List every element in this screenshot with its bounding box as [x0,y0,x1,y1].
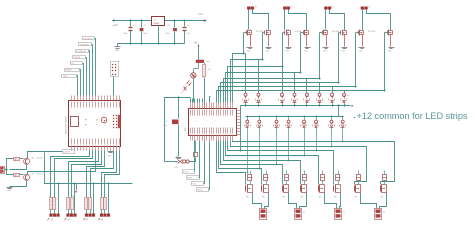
connector SV1 vertical flag [111,62,119,77]
svg-text:X2: X2 [291,7,293,9]
capacitor C3 [174,21,176,28]
svg-text:X1: X1 [255,7,257,9]
svg-text:GND: GND [63,76,68,78]
wire IC2 output 6 staircase to channel column [221,83,339,103]
net label flag GND2 [197,188,209,192]
transistor Q11 power MOSFET top row [303,31,305,35]
net label flag D13/SCK [83,37,95,40]
transistor T14 row D [316,117,318,121]
svg-text:F1: F1 [176,156,178,158]
wire net GND2 to IC2 [209,141,210,190]
transistor T16 row D [342,117,344,121]
wire SV1 to IC1 pin [113,77,115,96]
LED power indicator [198,63,200,69]
transistor T4 row C [294,73,296,94]
wire MOSFET pair to X6 [289,193,297,209]
wire IC2 output 1 staircase to channel column [233,54,246,103]
IC2 pin name texts bottom row [190,128,192,134]
IC2 right pin stubs [237,110,241,112]
capacitor C7 [172,120,179,125]
wire IC2 to MOSFET row F channel 1 [217,141,246,185]
ground symbol near IC2 [176,157,182,159]
wire X1 pad2 to MOSFET [253,10,269,30]
wire Q10 source to ground [288,35,290,47]
svg-text:RESET: RESET [65,70,72,72]
wire IC2 output 8 staircase to channel column [217,91,385,103]
wire Q7 collector to IC1 pin [28,151,96,175]
transistor Q20 power MOSFET row F [318,186,320,192]
ground symbol Q10 [286,47,292,49]
connector X4 12V strip top [361,7,364,10]
wire X1 pad1 to MOSFET [248,10,250,30]
IC1 logo circle [101,117,107,123]
wire net RESET to IC1 pin [80,70,81,96]
transistor T10 row D [259,117,261,121]
wire Q6 collector to flag [28,152,63,159]
svg-text:IC3: IC3 [153,19,156,21]
wire C7 branch [178,98,180,119]
wire IC2 output 7 staircase to channel column [219,87,356,103]
svg-text:X8: X8 [383,212,385,214]
resistor R2 LED output [50,198,53,210]
transistor Q21 power MOSFET row F [333,186,335,192]
wire MOSFET pair to X5 [253,193,262,209]
svg-text:ARDUINO NANO: ARDUINO NANO [65,117,68,134]
transistor T13 row D [304,117,306,121]
wire +12V rail row C [241,105,351,107]
capacitor C5 [196,60,204,63]
svg-text:X7: X7 [343,212,345,214]
transistor T7 row C [332,87,334,94]
wire +12V to connector JP4 pin3 [108,184,110,214]
ground symbol Q15 [389,47,395,49]
IC1 pin name texts bottom row [71,139,73,145]
wire row D top bus [246,116,344,118]
transistor T12 row D [288,117,290,121]
crystal marks [184,87,187,91]
transistor Q14 power MOSFET top row [358,31,360,35]
wire +12V to connector JP3 pin3 [93,184,95,214]
svg-text:D13/SCK: D13/SCK [84,38,93,40]
svg-text:100n: 100n [143,33,147,35]
LED arrows [187,81,190,84]
net label flag SCLK [183,170,195,174]
junction dots on +5V rail [174,20,176,22]
wire IC2 to MOSFET row F channel 7 [231,141,367,185]
svg-text:+12V: +12V [112,23,118,27]
svg-text:BC547: BC547 [37,158,44,160]
capacitor C2 [141,21,143,28]
wire gate Q15 [384,33,386,91]
transistor T9 row D [247,117,249,121]
capacitor C1 electrolytic [130,21,132,27]
IC1 bottom pin stubs [71,146,73,151]
wires IC2 top-left pins [192,99,194,103]
wire IC2 output 4 staircase to channel column [226,73,301,103]
diode D7 row F [357,175,361,181]
wire +12V to connector JP2 pin3 [74,184,76,214]
transistor T3 row C [282,67,284,94]
wire IC2 to MOSFET row F channel 2 [219,141,262,185]
wire net SCLK to IC2 [194,141,196,172]
svg-text:GND: GND [115,50,120,52]
svg-text:X3: X3 [332,7,334,9]
transistor T1 row C [245,54,247,94]
svg-text:IRF: IRF [301,197,304,199]
IC2 top pin stubs [190,103,192,109]
svg-text:X5: X5 [268,212,270,214]
resistor R1 pullup [204,63,206,65]
wire ground bus of power section [118,43,185,45]
svg-text:+5V: +5V [198,12,203,16]
wire IC2 output 2 staircase to channel column [231,60,263,103]
wire gate Q14 [355,33,357,87]
wire IC2 to MOSFET row F channel 6 [228,141,334,185]
transistor Q8 power MOSFET top row [246,31,248,35]
wire MOSFET pair to X7 [325,193,337,209]
svg-text:100n: 100n [165,33,169,35]
resistor R5 LED output [71,198,74,210]
diode D8 row F [383,175,387,181]
IC1 pin name texts top row [71,102,73,108]
wire X4 pad2 to MOSFET [367,10,391,30]
wire gate Q12 [319,33,321,79]
svg-text:100n: 100n [163,125,167,127]
wire +5V to R1 C5 [198,49,200,60]
transistor T2 row C [258,60,260,94]
wire R20 to Q6 [20,158,24,160]
transistor Q12 power MOSFET top row [322,31,324,35]
svg-text:D11/MOSI: D11/MOSI [76,51,86,53]
net label flag D9 [71,62,83,65]
wire Q11 source to ground [306,35,308,47]
wire net MOSI to IC2 [199,141,200,178]
diode D2 row F [264,175,268,181]
transistor T8 row C [344,91,346,94]
wire X2 pad2 to MOSFET [289,10,307,30]
wire X2 to transistor bases [5,169,7,171]
IC1 top pin stubs [71,96,73,101]
svg-text:X6: X6 [303,212,305,214]
wire LED cathode to IC2 [193,79,195,103]
svg-text:IRF: IRF [334,197,337,199]
wire T9 down to fan [247,128,249,173]
wire net GND to IC1 pin [77,76,78,96]
teal title text [353,117,355,119]
wire T15 down to fan [331,128,333,147]
wire net SCL to IC2 [204,141,205,184]
svg-text:D12/MISO: D12/MISO [80,45,90,47]
svg-text:D2-INT: D2-INT [63,152,70,154]
wire gate Q9 [262,33,264,60]
wire T13 down to fan [304,128,306,156]
wire Q12 source to ground [326,35,328,47]
IC2 pin name texts top row [190,110,192,116]
ground symbol IC1 [110,151,112,152]
net label flag D10/SS [73,56,86,59]
net label flag GND [62,75,77,78]
diode D6 row F [336,175,340,181]
wire net D13/SCK to IC1 pin [95,39,96,96]
wire supply loop left of IC2 [165,98,191,162]
transistor T6 row C [319,83,321,94]
net label flag MOSI [187,176,200,180]
IC1 pad grid [113,115,114,116]
resistor R7 LED output [89,198,92,210]
wire IC2 to MOSFET row F channel 3 [221,141,283,185]
diode D3 row F [285,175,289,181]
diode D4 row F [303,175,307,181]
wire fuse feed [165,161,178,163]
resistor R6 LED output [85,198,88,210]
wire gate Q13 [338,33,340,83]
wire gate Q11 [300,33,302,73]
diode D1 row F [248,175,252,181]
connector X1 12V strip top [247,7,250,10]
svg-text:GND: GND [107,156,112,158]
IC2 bottom pin stubs [190,135,192,141]
net label flag INT below IC1 [63,150,75,154]
wire T12 down to fan [288,128,290,161]
resistor R4 LED output [67,198,70,210]
transistor T15 row D [331,117,333,121]
svg-text:MOSI: MOSI [187,177,193,179]
wire IC2 to MOSFET row F channel 5 [226,141,319,185]
resistor R21 base [14,174,20,177]
connector JP4 LED strip output [100,214,103,217]
svg-text:D10/SS: D10/SS [73,57,81,59]
wire emitters to ground [10,165,27,170]
svg-text:Q1: Q1 [181,92,183,94]
connector JP1 LED strip output [49,214,52,217]
svg-text:100u: 100u [123,33,127,35]
IC1 crystal box inside [71,117,79,127]
connector X2 12V strip top [283,7,286,10]
svg-text:IRF: IRF [381,197,384,199]
wire net D12/MISO to IC1 pin [92,45,93,96]
svg-text:IRLZ34N: IRLZ34N [368,31,376,33]
wire T16 down to fan [342,128,344,142]
transistor Q7 [24,174,30,180]
wire fuse to IC2 [190,158,196,162]
transistor Q19 power MOSFET row F [300,186,302,192]
transistor Q15 power MOSFET top row [387,31,389,35]
transistor Q18 power MOSFET row F [282,186,284,192]
net label flag D11/MOSI [76,50,89,53]
svg-text:X4: X4 [368,7,370,9]
wire net D9 to IC1 pin [83,64,84,96]
microcontroller IC1 ARDUINO NANO body [69,101,121,147]
svg-text:78S05: 78S05 [153,23,160,25]
ground symbol Q12 [323,47,329,49]
connector X2 input [1,167,5,174]
transistor Q6 [24,158,30,164]
ground symbol Q14 [359,47,365,49]
wire net D11/MOSI to IC1 pin [89,51,90,96]
transistor Q10 power MOSFET top row [284,31,286,35]
transistor Q22 power MOSFET row F [354,186,356,192]
transistor T11 row D [276,117,278,121]
driver IC2 body [189,109,237,136]
wire Q9 source to ground [268,35,270,47]
connector X6 bottom output [295,209,302,220]
net label flag RESET [65,69,80,72]
fuse F1 [178,160,183,164]
ground symbol Q13 [342,47,348,49]
svg-text:BC547: BC547 [37,174,44,176]
svg-text:GND2: GND2 [197,189,203,191]
supply +12V symbol bottom left [76,184,78,191]
wire gate Q8 [243,33,245,54]
connector JP3 LED strip output [85,214,88,217]
transistor Q23 power MOSFET row F [380,186,382,192]
resistor R8 LED output [101,198,104,210]
capacitor C4 electrolytic [184,21,186,27]
connector X8 bottom output [375,209,382,220]
wire +12V input rail [113,20,152,22]
ground symbol power section [117,44,119,47]
wire +12V to connector JP1 pin3 [58,184,60,214]
ground symbol Q9 [266,47,272,49]
svg-text:100n: 100n [206,61,210,63]
svg-text:IRF: IRF [262,197,265,199]
wires IC1 to output resistors staircase [51,151,90,198]
wire X2 pad1 to MOSFET [284,10,286,30]
wire R1 to IC2 pin [204,78,206,108]
connector JP2 LED strip output [66,214,69,217]
svg-text:10k: 10k [208,69,211,71]
wire rail left drop [240,106,242,151]
svg-text:GND: GND [7,190,12,192]
IC2 middle marks [197,121,198,122]
net label flag SCL [192,182,204,186]
wire IC2 output 3 staircase to channel column [228,67,283,103]
wire Q8 source to ground [250,35,252,47]
ground symbol Q8 [247,47,253,49]
resistor R9 LED output [104,198,107,210]
wire R21 to Q7 [20,174,24,176]
svg-text:SCLK: SCLK [183,171,189,173]
svg-text:IRF: IRF [319,197,322,199]
voltage regulator IC3 78S05 [152,17,165,26]
connector X3 12V strip top [324,7,327,10]
wire T10 down to fan [259,128,261,169]
diode D5 row F [321,175,325,181]
wire MOSFET pair to X8 [361,193,377,209]
wire Q13 source to ground [344,35,346,47]
resistor R20 base [14,158,20,161]
transistor Q16 power MOSFET row F [245,186,247,192]
transistor Q9 power MOSFET top row [264,31,266,35]
wire T11 down to fan [276,128,278,165]
wire net D10/SS to IC1 pin [86,58,87,96]
wire X4 pad1 to MOSFET [362,10,364,30]
svg-text:+5V: +5V [194,42,199,45]
net label flag D12/MISO [79,43,92,46]
wire T14 down to fan [316,128,318,151]
wire IC2 output 5 staircase to channel column [224,79,320,103]
wire IC2 to MOSFET row F channel 4 [224,141,301,185]
wire X3 pad2 to MOSFET [330,10,345,30]
transistor Q13 power MOSFET top row [340,31,342,35]
svg-text:C7: C7 [165,121,167,123]
svg-text:IRF: IRF [246,197,249,199]
ground symbol input section [9,186,11,188]
wire Q14 source to ground [362,35,364,47]
transistor Q17 power MOSFET row F [261,186,263,192]
transistor T5 row C [306,79,308,94]
svg-text:IRF: IRF [355,197,358,199]
wire gate Q10 [282,33,284,67]
svg-text:IRF: IRF [283,197,286,199]
wire Q15 source to ground [390,35,392,47]
wire +5V output rail [165,20,207,22]
junction dots on +12V rail [130,20,132,22]
fuse F2 vertical [194,153,198,157]
ground symbol Q11 [305,47,311,49]
wire +12V bus bottom left [45,153,133,184]
wire X3 pad1 to MOSFET [325,10,327,30]
wire IC2 to MOSFET row F channel 8 [233,141,395,185]
resistor R3 LED output [53,198,56,210]
connector X7 bottom output [335,209,342,220]
connector X5 bottom output [260,209,267,220]
svg-text:10u: 10u [187,33,190,35]
svg-text:+12 common for LED strips: +12 common for LED strips [357,110,468,121]
